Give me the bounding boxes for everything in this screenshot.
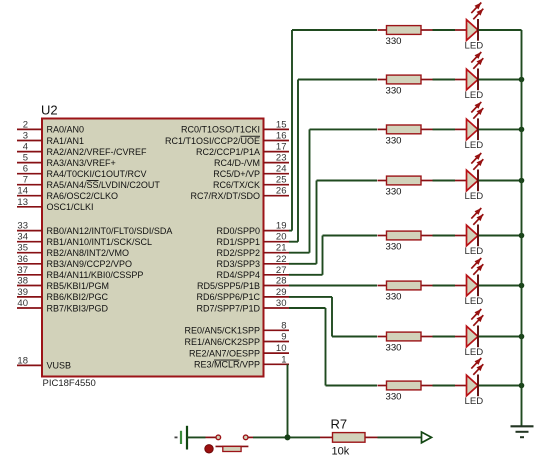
svg-text:RA3/AN3/VREF+: RA3/AN3/VREF+ [47, 158, 116, 168]
U2 pin 26 (RC7/RX/DT/SDO) [190, 186, 289, 201]
wire row 6 horizontal to resistor [289, 285, 377, 287]
wire row 8 horizontal to resistor [326, 385, 378, 387]
ground [511, 426, 534, 437]
svg-text:RB5/KBI1/PGM: RB5/KBI1/PGM [47, 281, 110, 291]
junction row 8 on right bus [519, 383, 525, 389]
junction row 5 on right bus [519, 233, 525, 239]
svg-text:RD7/SPP7/P1D: RD7/SPP7/P1D [196, 303, 260, 313]
U2 pin 14 (RA6/OSC2/CLKO) [17, 186, 118, 201]
svg-text:RC1/T1OSI/CCP2/UOE: RC1/T1OSI/CCP2/UOE [165, 136, 260, 146]
wire from U2 RD6 pin to LED row 7 [289, 297, 332, 337]
wire from U2 RD3 pin to LED row 4 [289, 181, 317, 264]
svg-text:14: 14 [17, 186, 28, 197]
svg-text:25: 25 [276, 175, 287, 186]
U2 pin 8 (RE0/AN5/CK1SPP) [184, 320, 289, 335]
svg-text:330: 330 [386, 86, 402, 97]
wire from U2 RD1 pin to LED row 2 [289, 80, 298, 242]
resistor 330 (row 2) [378, 75, 433, 96]
U2 pin 2 (RA0/AN0) [17, 119, 84, 134]
svg-text:330: 330 [386, 242, 402, 253]
svg-text:RC7/RX/DT/SDO: RC7/RX/DT/SDO [190, 191, 260, 201]
svg-text:RA4/T0CKI/C1OUT/RCV: RA4/T0CKI/C1OUT/RCV [47, 169, 147, 179]
LED (row 2) [455, 52, 483, 101]
output terminal arrow [422, 432, 432, 443]
U2 pin 1 (RE3/MCLR/VPP) [194, 354, 289, 369]
wire resistor to LED (row 4) [433, 180, 456, 182]
wire from U2 RD4 pin to LED row 5 [289, 236, 323, 275]
U2 pin 29 (RD6/SPP6/P1C) [196, 287, 289, 302]
svg-text:RD4/SPP4: RD4/SPP4 [216, 270, 260, 280]
svg-text:RD2/SPP2: RD2/SPP2 [216, 248, 260, 258]
svg-text:40: 40 [17, 298, 28, 309]
LED (row 4) [455, 153, 483, 202]
IC U2 (PIC18F4550 microcontroller) body [42, 119, 264, 377]
wire from U2 RD0 pin to LED row 1 [289, 30, 292, 231]
U2 pin 19 (RD0/SPP0) [216, 221, 289, 236]
svg-text:LED: LED [465, 41, 484, 52]
LED (row 5) [455, 208, 483, 257]
svg-text:RC5/D+/VP: RC5/D+/VP [213, 169, 260, 179]
wire resistor to LED (row 1) [433, 29, 456, 31]
svg-text:17: 17 [276, 142, 287, 153]
reference designator U2 [41, 103, 58, 118]
svg-text:RB4/AN11/KBI0/CSSPP: RB4/AN11/KBI0/CSSPP [47, 270, 144, 280]
U2 pin 5 (RA3/AN3/VREF+) [17, 153, 116, 168]
wire resistor to LED (row 7) [433, 336, 456, 338]
svg-text:28: 28 [276, 276, 287, 287]
U2 pin 16 (RC1/T1OSI/CCP2/UOE) [165, 131, 289, 146]
svg-text:330: 330 [386, 343, 402, 354]
resistor 330 (row 6) [378, 281, 433, 302]
U2 pin 36 (RB3/AN9/CCP2/VPO) [17, 254, 132, 269]
svg-text:RB7/KBI3/PGD: RB7/KBI3/PGD [47, 303, 109, 313]
svg-text:RE1/AN6/CK2SPP: RE1/AN6/CK2SPP [184, 337, 260, 347]
U2 pin 28 (RD5/SPP5/P1B) [197, 276, 289, 291]
resistor 330 (row 8) [378, 381, 433, 402]
svg-text:RA1/AN1: RA1/AN1 [47, 136, 85, 146]
LED (row 1) [455, 3, 483, 52]
svg-text:39: 39 [17, 287, 28, 298]
wire from U2 RD7 pin to LED row 8 [289, 308, 326, 386]
svg-text:30: 30 [276, 298, 287, 309]
svg-text:4: 4 [23, 142, 28, 153]
svg-text:10k: 10k [332, 445, 350, 457]
wire resistor to LED (row 3) [433, 128, 456, 130]
wire push button to node [253, 436, 320, 438]
wire LED row 2 to right bus [479, 79, 522, 81]
U2 pin 10 (RE2/AN7/OESPP) [189, 343, 289, 358]
svg-text:LED: LED [465, 396, 484, 407]
junction row 3 on right bus [519, 127, 525, 133]
wire row 7 horizontal to resistor [332, 336, 377, 338]
resistor 330 (row 3) [378, 125, 433, 146]
U2 pin 27 (RD4/SPP4) [216, 265, 289, 280]
svg-text:RB3/AN9/CCP2/VPO: RB3/AN9/CCP2/VPO [47, 259, 133, 269]
U2 pin 38 (RB5/KBI1/PGM) [17, 276, 109, 291]
wire battery to push button [187, 436, 206, 438]
svg-text:1: 1 [281, 354, 286, 365]
wire row 1 horizontal to resistor [292, 29, 377, 31]
svg-text:29: 29 [276, 287, 287, 298]
U2 pin 6 (RA4/T0CKI/C1OUT/RCV) [17, 164, 147, 179]
U2 pin 39 (RB6/KBI2/PGC) [17, 287, 109, 302]
U2 pin 7 (RA5/AN4/SS/LVDIN/C2OUT) [17, 175, 160, 190]
svg-text:RE2/AN7/OESPP: RE2/AN7/OESPP [189, 348, 260, 358]
svg-text:34: 34 [17, 232, 28, 243]
svg-text:LED: LED [465, 191, 484, 202]
svg-text:RE3/MCLR/VPP: RE3/MCLR/VPP [194, 360, 260, 370]
wire LED row 3 to right bus [479, 128, 522, 130]
svg-text:LED: LED [465, 246, 484, 257]
svg-text:RA6/OSC2/CLKO: RA6/OSC2/CLKO [47, 191, 119, 201]
value label PIC18F4550 [43, 378, 96, 389]
U2 pin 3 (RA1/AN1) [17, 131, 84, 146]
battery B1 [175, 426, 188, 450]
push button [205, 435, 253, 453]
svg-text:R7: R7 [331, 417, 348, 432]
U2 pin 17 (RC2/CCP1/P1A) [196, 142, 289, 157]
svg-text:RC6/TX/CK: RC6/TX/CK [213, 180, 260, 190]
wire resistor to LED (row 5) [433, 235, 456, 237]
resistor 330 (row 5) [378, 231, 433, 252]
U2 pin 15 (RC0/T1OSO/T1CKI) [181, 119, 289, 134]
U2 pin 24 (RC5/D+/VP) [213, 164, 289, 179]
U2 pin 20 (RD1/SPP1) [216, 232, 289, 247]
wire LED row 7 to right bus [479, 336, 522, 338]
svg-text:330: 330 [386, 292, 402, 303]
wire row 4 horizontal to resistor [317, 180, 378, 182]
wire row 5 horizontal to resistor [323, 235, 378, 237]
svg-text:38: 38 [17, 276, 28, 287]
wire resistor to LED (row 6) [433, 285, 456, 287]
wire LED row 1 to right bus [479, 29, 522, 31]
svg-text:RC2/CCP1/P1A: RC2/CCP1/P1A [196, 147, 260, 157]
svg-text:37: 37 [17, 265, 28, 276]
svg-text:9: 9 [281, 332, 286, 343]
junction row 6 on right bus [519, 283, 525, 289]
U2 pin 37 (RB4/AN11/KBI0/CSSPP) [17, 265, 143, 280]
resistor 330 (row 4) [378, 176, 433, 197]
LED (row 7) [455, 309, 483, 358]
wire U2 pin 1 down to node [287, 364, 289, 437]
svg-text:15: 15 [276, 119, 287, 130]
svg-text:330: 330 [386, 392, 402, 403]
svg-text:21: 21 [276, 243, 287, 254]
junction row 4 on right bus [519, 178, 525, 184]
U2 pin 35 (RB2/AN8/INT2/VMO) [17, 243, 129, 258]
U2 pin 22 (RD3/SPP3) [216, 254, 289, 269]
wire right vertical bus to ground [521, 30, 523, 426]
LED (row 3) [455, 102, 483, 151]
svg-text:RC0/T1OSO/T1CKI: RC0/T1OSO/T1CKI [181, 125, 260, 135]
svg-text:36: 36 [17, 254, 28, 265]
svg-text:RA5/AN4/SS/LVDIN/C2OUT: RA5/AN4/SS/LVDIN/C2OUT [47, 180, 161, 190]
svg-text:330: 330 [386, 135, 402, 146]
svg-text:33: 33 [17, 221, 28, 232]
U2 pin 25 (RC6/TX/CK) [213, 175, 289, 190]
svg-text:35: 35 [17, 243, 28, 254]
svg-text:RA0/AN0: RA0/AN0 [47, 125, 85, 135]
wire from U2 RD2 pin to LED row 3 [289, 129, 310, 252]
svg-text:RD5/SPP5/P1B: RD5/SPP5/P1B [197, 281, 260, 291]
wire LED row 4 to right bus [479, 180, 522, 182]
junction row 2 on right bus [519, 77, 525, 83]
svg-text:RB1/AN10/INT1/SCK/SCL: RB1/AN10/INT1/SCK/SCL [47, 237, 153, 247]
svg-text:8: 8 [281, 320, 286, 331]
svg-text:23: 23 [276, 153, 287, 164]
svg-text:OSC1/CLKI: OSC1/CLKI [47, 202, 94, 212]
wire row 3 horizontal to resistor [310, 128, 378, 130]
U2 pin 23 (RC4/D-/VM) [214, 153, 289, 168]
svg-text:13: 13 [17, 197, 28, 208]
svg-text:RB0/AN12/INT0/FLT0/SDI/SDA: RB0/AN12/INT0/FLT0/SDI/SDA [47, 226, 173, 236]
svg-text:RD3/SPP3: RD3/SPP3 [216, 259, 260, 269]
U2 pin 4 (RA2/AN2/VREF-/CVREF) [17, 142, 147, 157]
svg-text:RD0/SPP0: RD0/SPP0 [216, 226, 260, 236]
U2 pin 33 (RB0/AN12/INT0/FLT0/SDI/SDA) [17, 221, 172, 236]
svg-text:RC4/D-/VM: RC4/D-/VM [214, 158, 260, 168]
svg-text:5: 5 [23, 153, 28, 164]
svg-text:16: 16 [276, 131, 287, 142]
junction row 7 on right bus [519, 334, 525, 340]
svg-text:LED: LED [465, 90, 484, 101]
svg-text:LED: LED [465, 347, 484, 358]
svg-text:RA2/AN2/VREF-/CVREF: RA2/AN2/VREF-/CVREF [47, 147, 148, 157]
U2 pin 34 (RB1/AN10/INT1/SCK/SCL) [17, 232, 152, 247]
svg-text:RD6/SPP6/P1C: RD6/SPP6/P1C [196, 292, 260, 302]
wire LED row 8 to right bus [479, 385, 522, 387]
wire R7 to output terminal [378, 436, 422, 438]
U2 pin 18 (VUSB) [17, 355, 71, 370]
wire resistor to LED (row 8) [433, 385, 456, 387]
junction node at pin-1 / button / R7 [285, 434, 291, 440]
svg-text:10: 10 [276, 343, 287, 354]
LED (row 8) [455, 358, 483, 407]
svg-text:RE0/AN5/CK1SPP: RE0/AN5/CK1SPP [184, 326, 260, 336]
U2 pin 9 (RE1/AN6/CK2SPP) [184, 332, 289, 347]
resistor 330 (row 1) [378, 26, 433, 47]
svg-text:18: 18 [17, 355, 28, 366]
resistor 330 (row 7) [378, 332, 433, 353]
svg-text:22: 22 [276, 254, 287, 265]
wire LED row 5 to right bus [479, 235, 522, 237]
svg-text:RB2/AN8/INT2/VMO: RB2/AN8/INT2/VMO [47, 248, 130, 258]
svg-text:RB6/KBI2/PGC: RB6/KBI2/PGC [47, 292, 109, 302]
svg-text:330: 330 [386, 36, 402, 47]
svg-text:2: 2 [23, 119, 28, 130]
U2 pin 13 (OSC1/CLKI) [17, 197, 94, 212]
U2 pin 21 (RD2/SPP2) [216, 243, 289, 258]
svg-text:26: 26 [276, 186, 287, 197]
resistor R7 10k [320, 417, 378, 458]
svg-text:6: 6 [23, 164, 28, 175]
U2 pin 40 (RB7/KBI3/PGD) [17, 298, 109, 313]
svg-text:VUSB: VUSB [47, 361, 72, 371]
svg-text:LED: LED [465, 296, 484, 307]
svg-text:3: 3 [23, 131, 28, 142]
svg-text:U2: U2 [41, 103, 58, 118]
svg-text:LED: LED [465, 140, 484, 151]
svg-text:20: 20 [276, 232, 287, 243]
wire row 2 horizontal to resistor [298, 79, 377, 81]
svg-text:PIC18F4550: PIC18F4550 [43, 378, 96, 389]
wire resistor to LED (row 2) [433, 79, 456, 81]
svg-text:330: 330 [386, 187, 402, 198]
svg-text:24: 24 [276, 164, 287, 175]
svg-text:27: 27 [276, 265, 287, 276]
wire LED row 6 to right bus [479, 285, 522, 287]
svg-text:RD1/SPP1: RD1/SPP1 [216, 237, 260, 247]
U2 pin 30 (RD7/SPP7/P1D) [196, 298, 289, 313]
svg-text:7: 7 [23, 175, 28, 186]
LED (row 6) [455, 258, 483, 307]
svg-text:19: 19 [276, 221, 287, 232]
